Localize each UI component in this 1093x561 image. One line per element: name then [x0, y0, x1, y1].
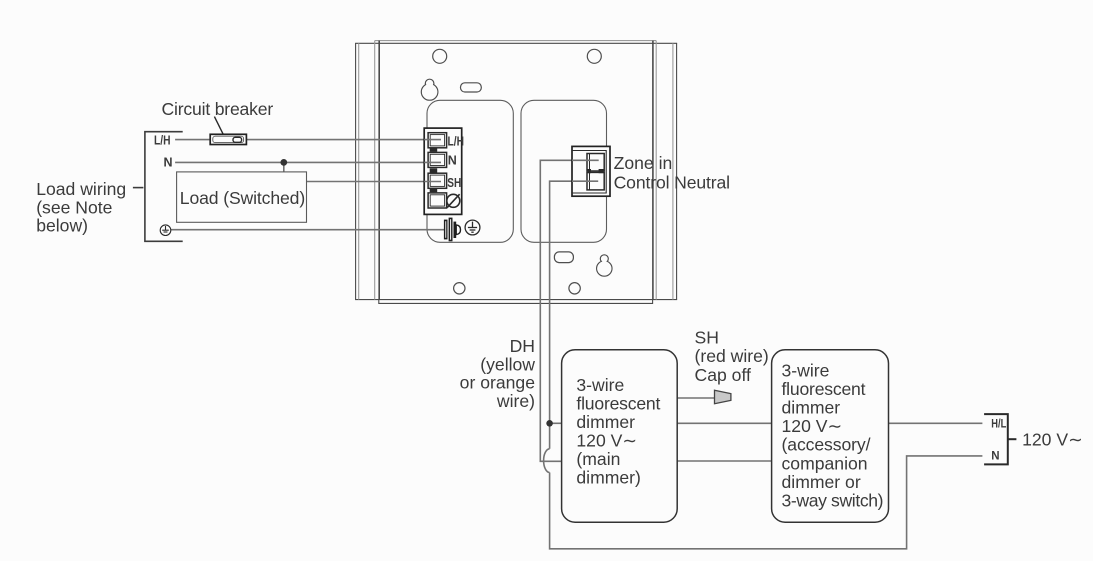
svg-text:3-way switch): 3-way switch)	[782, 491, 884, 511]
svg-text:SH: SH	[695, 328, 719, 348]
svg-text:Circuit breaker: Circuit breaker	[162, 99, 274, 119]
svg-text:dimmer: dimmer	[576, 412, 635, 432]
svg-text:N: N	[448, 153, 457, 167]
svg-text:L/H: L/H	[448, 134, 465, 148]
svg-text:H/L: H/L	[991, 418, 1006, 430]
svg-text:120 V∼: 120 V∼	[1022, 430, 1083, 450]
svg-text:fluorescent: fluorescent	[782, 379, 866, 399]
svg-text:Load wiring: Load wiring	[36, 179, 126, 199]
svg-text:fluorescent: fluorescent	[576, 394, 660, 414]
svg-text:(yellow: (yellow	[480, 354, 535, 374]
svg-text:or orange: or orange	[460, 373, 535, 393]
svg-text:(red wire): (red wire)	[695, 346, 769, 366]
svg-text:SH: SH	[447, 176, 461, 190]
svg-text:dimmer: dimmer	[782, 398, 841, 418]
svg-text:Cap off: Cap off	[695, 365, 752, 385]
svg-text:dimmer or: dimmer or	[782, 472, 861, 492]
svg-text:wire): wire)	[496, 391, 535, 411]
svg-text:3-wire: 3-wire	[576, 375, 624, 395]
svg-text:(accessory/: (accessory/	[782, 435, 871, 455]
svg-text:Control Neutral: Control Neutral	[614, 173, 731, 193]
svg-text:120 V∼: 120 V∼	[576, 431, 637, 451]
svg-text:N: N	[164, 156, 173, 170]
svg-text:below): below)	[36, 216, 88, 236]
svg-text:Load (Switched): Load (Switched)	[180, 188, 305, 208]
svg-text:(main: (main	[576, 449, 620, 469]
svg-text:dimmer): dimmer)	[576, 468, 641, 488]
svg-text:L/H: L/H	[154, 134, 171, 148]
svg-text:N: N	[991, 450, 999, 462]
svg-text:DH: DH	[510, 336, 535, 356]
svg-text:Zone in: Zone in	[614, 153, 673, 173]
svg-text:120 V∼: 120 V∼	[782, 416, 843, 436]
svg-text:companion: companion	[782, 453, 868, 473]
svg-text:3-wire: 3-wire	[782, 360, 830, 380]
svg-text:(see Note: (see Note	[36, 197, 112, 217]
